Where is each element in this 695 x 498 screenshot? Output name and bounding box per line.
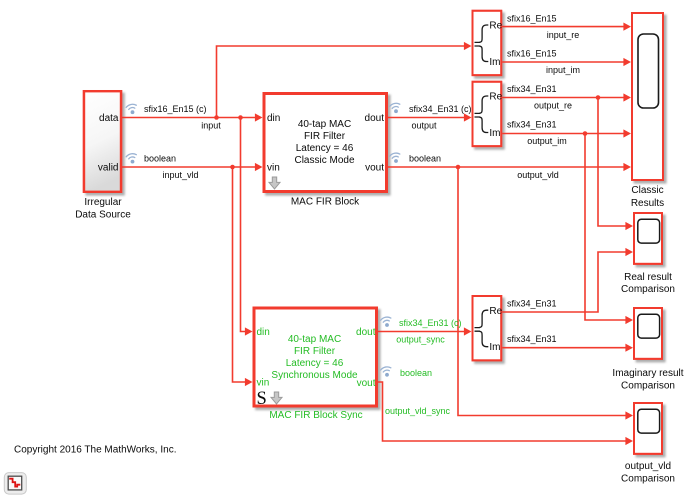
svg-text:sfix16_En15: sfix16_En15 <box>507 14 557 24</box>
svg-text:vin: vin <box>267 162 280 173</box>
wire: valid branch down to sync vin <box>233 167 253 386</box>
block: Complex to Real-Imag U3 (sync output) <box>473 296 503 360</box>
badge: logged-signal wifi on sync vout <box>380 366 391 377</box>
svg-text:Data Source: Data Source <box>75 209 131 220</box>
wire: sync vout to output_vld Comparison p2 (output_vld_sync) <box>378 382 633 445</box>
svg-text:din: din <box>267 113 280 124</box>
block: Complex to Real-Imag U2 (classic output) <box>473 82 503 146</box>
svg-text:sfix16_En15: sfix16_En15 <box>507 49 557 59</box>
svg-text:vin: vin <box>257 378 270 389</box>
junction: output_re branch down <box>596 95 601 100</box>
wire: U3 Im to Imaginary result p2 <box>502 344 633 352</box>
svg-text:S: S <box>257 389 267 409</box>
block: MAC FIR Block (classic) <box>264 94 387 208</box>
block: Complex to Real-Imag U1 (input) <box>473 11 503 75</box>
svg-text:sfix34_En31 (c): sfix34_En31 (c) <box>399 318 462 328</box>
svg-text:input: input <box>201 121 221 131</box>
wire: data to din <box>122 113 263 121</box>
block: Irregular Data Source (source subsystem) <box>75 91 131 220</box>
svg-text:sfix34_En31 (c): sfix34_En31 (c) <box>409 104 472 114</box>
junction: data wire branch down <box>238 115 243 120</box>
svg-text:output_vld_sync: output_vld_sync <box>385 406 451 416</box>
badge: logged-signal wifi on sync dout <box>380 316 391 327</box>
wire: data branch up to U1 input <box>217 42 472 118</box>
svg-text:sfix34_En31: sfix34_En31 <box>507 299 557 309</box>
wire: U2 Im to Classic p4 (output_im) <box>502 129 631 137</box>
svg-text:Classic Mode: Classic Mode <box>294 155 354 166</box>
svg-text:input_vld: input_vld <box>162 170 198 180</box>
svg-text:Latency = 46: Latency = 46 <box>286 358 344 369</box>
wire: U1 Im to Classic p2 (input_im) <box>502 58 631 66</box>
svg-text:Synchronous Mode: Synchronous Mode <box>271 370 358 381</box>
svg-text:vout: vout <box>357 378 376 389</box>
svg-text:Comparison: Comparison <box>621 474 675 485</box>
wire: U1 Re to Classic p1 (input_re) <box>502 23 631 31</box>
svg-text:dout: dout <box>356 327 376 338</box>
wire: valid to vin <box>122 163 263 171</box>
wire: output_re branch down to Real result p1 <box>598 98 633 231</box>
svg-text:FIR Filter: FIR Filter <box>294 346 336 357</box>
junction: output_im branch down <box>583 131 588 136</box>
svg-text:input_re: input_re <box>547 30 580 40</box>
wire: output_vld branch down to output_vld Comparison p1 <box>458 167 633 420</box>
svg-text:40-tap MAC: 40-tap MAC <box>298 119 351 130</box>
junction: valid wire branch down <box>230 165 235 170</box>
svg-text:output_im: output_im <box>527 136 567 146</box>
wire: output_im branch down to Imaginary result p1 <box>585 134 633 325</box>
svg-text:boolean: boolean <box>409 154 441 164</box>
svg-text:output_re: output_re <box>534 101 572 111</box>
wire: data branch down to sync din <box>241 118 253 336</box>
svg-text:dout: dout <box>365 113 385 124</box>
svg-text:boolean: boolean <box>144 154 176 164</box>
svg-text:Comparison: Comparison <box>621 381 675 392</box>
svg-text:Comparison: Comparison <box>621 284 675 295</box>
svg-text:sfix34_En31: sfix34_En31 <box>507 120 557 130</box>
badge: logged-signal wifi on valid <box>126 153 137 164</box>
svg-text:Latency = 46: Latency = 46 <box>296 143 354 154</box>
svg-text:output_vld: output_vld <box>517 170 559 180</box>
svg-text:Real result: Real result <box>624 272 672 283</box>
wire: dout to U2 input (output) <box>388 113 472 121</box>
wire: sync dout to U3 input (output_sync) <box>378 327 472 335</box>
junction: output_vld branch down <box>456 165 461 170</box>
svg-text:boolean: boolean <box>400 368 432 378</box>
svg-text:Imaginary result: Imaginary result <box>612 368 683 379</box>
svg-text:Copyright 2016 The MathWorks,: Copyright 2016 The MathWorks, Inc. <box>14 445 177 456</box>
block: Classic Results scope <box>631 13 664 209</box>
block: MAC FIR Block Sync (synchronous) <box>254 308 377 421</box>
svg-text:Classic: Classic <box>631 185 663 196</box>
svg-text:valid: valid <box>98 163 119 174</box>
block: Imaginary result Comparison scope <box>612 308 683 392</box>
wire: U3 Re up to Real result p2 <box>502 248 633 312</box>
svg-text:output_vld: output_vld <box>625 461 671 472</box>
badge: logged-signal wifi on vout <box>389 152 400 163</box>
wire: vout to Classic Results p5 (output_vld) <box>388 163 631 171</box>
icon: sample-time legend button <box>4 473 26 495</box>
svg-text:input_im: input_im <box>546 65 580 75</box>
svg-text:sfix34_En31: sfix34_En31 <box>507 334 557 344</box>
svg-text:40-tap MAC: 40-tap MAC <box>288 334 341 345</box>
svg-text:Results: Results <box>631 198 664 209</box>
block: Real result Comparison scope <box>621 213 675 295</box>
svg-text:output: output <box>411 121 437 131</box>
badge: logged-signal wifi on dout <box>389 102 400 113</box>
svg-text:sfix16_En15 (c): sfix16_En15 (c) <box>144 104 207 114</box>
junction: data wire branch up <box>214 115 219 120</box>
svg-text:MAC FIR Block: MAC FIR Block <box>291 197 360 208</box>
badge: logged-signal wifi on data <box>126 103 137 114</box>
svg-text:vout: vout <box>365 162 384 173</box>
svg-text:Irregular: Irregular <box>84 197 122 208</box>
wire: U2 Re to Classic p3 (output_re) <box>502 93 631 101</box>
svg-text:sfix34_En31: sfix34_En31 <box>507 84 557 94</box>
svg-text:MAC FIR Block Sync: MAC FIR Block Sync <box>269 410 362 421</box>
svg-text:data: data <box>99 113 119 124</box>
svg-text:din: din <box>257 327 270 338</box>
block: output_vld Comparison scope <box>621 403 675 485</box>
svg-text:FIR Filter: FIR Filter <box>304 131 346 142</box>
svg-text:output_sync: output_sync <box>396 335 445 345</box>
